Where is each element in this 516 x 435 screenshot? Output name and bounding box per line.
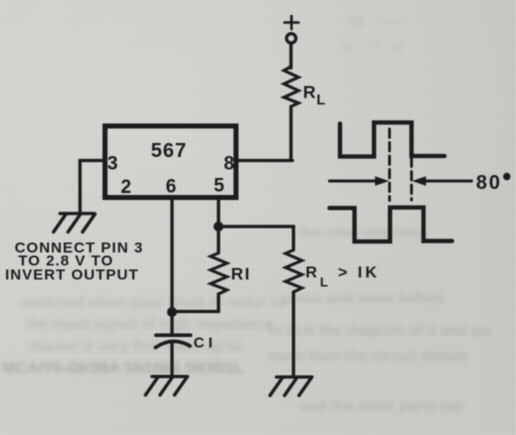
svg-text:6: 6 (166, 177, 177, 198)
label R1 (231, 265, 251, 284)
resistor RL (top) (284, 67, 299, 107)
waveform top (pin 8 output) (340, 123, 445, 157)
wire: node B to RL2 (219, 227, 294, 251)
supply + terminal (285, 16, 299, 43)
label 80 degrees (476, 172, 510, 194)
wire: C1 to ground (170, 344, 173, 377)
wire: RL2 to ground (292, 292, 295, 376)
wire: R1 bottom to node A (172, 294, 219, 312)
wire: pin 5 down (217, 198, 220, 254)
svg-text:R: R (306, 265, 318, 282)
ground (RL2) (270, 377, 312, 396)
svg-text:L: L (320, 275, 328, 290)
dashed line A (388, 129, 391, 201)
junction node B (214, 222, 224, 232)
label RL (303, 82, 326, 109)
svg-text:5: 5 (214, 176, 225, 197)
svg-text:8: 8 (224, 154, 235, 175)
resistor R1 (211, 253, 228, 294)
ground (C1) (146, 377, 188, 396)
svg-text:R: R (303, 82, 316, 102)
wire: supply to RL (289, 44, 292, 68)
svg-text:3: 3 (107, 154, 118, 175)
op-amp / IC U1 567 (105, 126, 236, 198)
junction node A (167, 307, 177, 317)
waveform bottom (pin 5 output) (330, 208, 453, 242)
svg-text:INVERT OUTPUT: INVERT OUTPUT (5, 267, 139, 284)
wire: pin 6 down (170, 198, 173, 335)
svg-text:80: 80 (476, 172, 502, 194)
svg-text:L: L (317, 93, 326, 109)
wire: RL bottom to pin 8 (239, 107, 293, 161)
arrow right (425, 180, 472, 183)
note text (5, 240, 143, 284)
svg-text:567: 567 (151, 140, 187, 162)
capacitor C1 (156, 333, 191, 337)
svg-text:2: 2 (121, 177, 132, 198)
wire: pin 3 to ground (80, 161, 103, 212)
resistor RL2 (RL > 1K) (286, 250, 303, 292)
bleed-through ghost text (back of page) (348, 14, 407, 31)
arrow left (330, 180, 377, 183)
ground (pin 3) (54, 214, 96, 233)
svg-text:> IK: > IK (338, 265, 380, 282)
svg-text:RI: RI (231, 265, 251, 284)
label RL > 1K (306, 265, 380, 290)
dashed line B (410, 158, 413, 200)
svg-text:CI: CI (194, 335, 217, 352)
label C1 (194, 335, 217, 352)
